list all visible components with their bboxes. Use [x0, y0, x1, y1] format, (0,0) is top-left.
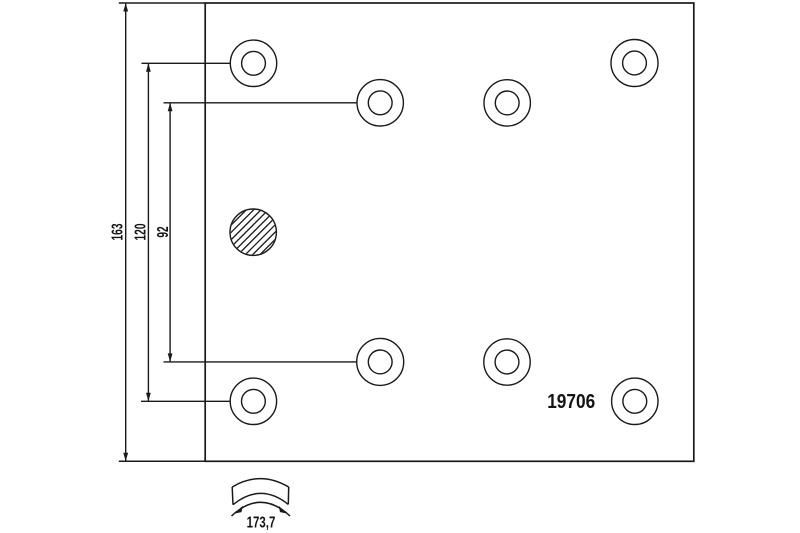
- svg-text:92: 92: [154, 226, 172, 237]
- svg-text:163: 163: [108, 224, 126, 241]
- svg-text:19706: 19706: [547, 390, 595, 412]
- svg-text:173,7: 173,7: [247, 514, 276, 531]
- svg-text:120: 120: [131, 224, 149, 241]
